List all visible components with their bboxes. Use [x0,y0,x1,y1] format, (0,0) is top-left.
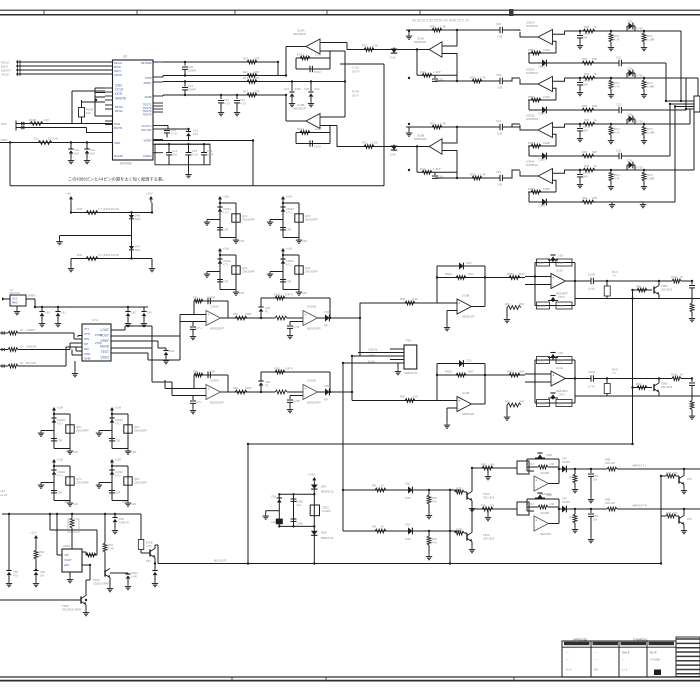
resistor RM2 to ground [428,531,430,536]
svg-text:C61: C61 [496,170,502,174]
svg-text:CDTI: CDTI [115,92,123,96]
resistor RM4 on collector [482,507,493,511]
svg-text:RSTN: RSTN [114,126,122,130]
svg-text:+12V: +12V [30,531,37,535]
transistor Q6B0 2SC1815 [653,286,655,293]
feedback box top row [535,359,575,361]
svg-text:5./B: 5./B [497,132,502,136]
svg-text:C3R: C3R [223,280,228,284]
mute transistor Q L [678,476,680,483]
svg-text:2200P: 2200P [188,68,196,72]
svg-text:Q6C: Q6C [134,425,140,429]
feedback box U91 [261,297,330,299]
svg-text:LRCK: LRCK [114,73,122,77]
wire AOUT row 4 [163,94,286,96]
svg-text:2200P: 2200P [188,87,196,91]
svg-text:1W: 1W [40,573,44,577]
svg-text:RF8: RF8 [584,164,590,168]
svg-text:+24V: +24V [308,473,315,477]
svg-text:24.5: 24.5 [12,297,18,301]
FET Q8 2SK209 box [124,477,132,485]
svg-text:C230P: C230P [207,296,215,300]
transistor emitter to lower row [658,392,660,396]
filter cell Q3 top rail [219,254,221,257]
svg-text:—: — [566,651,569,655]
vertical row4 to connector [693,112,695,170]
transistor QM 2SC1815 [466,492,468,499]
svg-text:U302A: U302A [210,379,219,383]
svg-text:4.750: 4.750 [636,74,643,78]
svg-text:4 / 4: 4 / 4 [566,668,572,672]
svg-text:2SC1815-GR48: 2SC1815-GR48 [62,607,82,611]
svg-text:U7A: U7A [92,318,98,322]
svg-text:Q1C: Q1C [242,214,248,218]
svg-text:+15A: +15A [57,406,64,410]
svg-text:22R: 22R [254,76,259,80]
svg-text:R6B: R6B [605,458,610,462]
svg-text:R50: R50 [470,76,476,80]
vertical row1 to bundle [680,31,682,101]
revision stripe block [676,637,700,677]
svg-text:D30: D30 [169,349,175,353]
USB connector P6S [404,345,417,369]
power arrow Q2 +15A [282,199,284,203]
svg-text:-: - [304,394,305,398]
wire down to note box [9,143,11,186]
svg-text:R50: R50 [70,521,75,525]
svg-text:P2: P2 [265,383,269,387]
svg-text:3W: 3W [490,463,494,467]
svg-text:10WF: 10WF [543,95,551,99]
svg-text:R6E: R6E [481,504,486,508]
feedback resistor R61 [528,52,556,54]
svg-text:R6B1: R6B1 [507,370,514,374]
svg-text:NE5532FF: NE5532FF [307,401,321,405]
series cap C60 lower [499,78,501,84]
lower return row [575,395,700,397]
svg-text:NE5532P: NE5532P [414,137,426,141]
svg-text:+: + [552,276,554,280]
cap Q6b on left rail [109,438,115,440]
svg-text:4.7K: 4.7K [456,527,462,531]
input resistor 3.3K [405,301,415,305]
polarized cap Q4a on left rail [280,258,285,260]
feedback resistor R6A7 [527,466,538,468]
filter cell Q8 ground [127,501,129,504]
svg-text:C6X: C6X [558,254,563,258]
op-amp output vertical [548,483,559,485]
vertical row4b to bundle [674,107,676,203]
svg-text:R91: R91 [233,312,238,316]
row 4 lower wire [529,201,619,203]
filter cell Q8 gnd branch [99,482,112,484]
FET Q5 2SK209 box [66,425,74,433]
feedback resistor box R6W2 [537,302,550,309]
svg-text:C2N: C2N [131,502,136,506]
DAC IC U6 AK4396 [113,60,154,160]
drive row wire (y=490) [343,489,460,491]
svg-text:R6.0: R6.0 [647,34,653,38]
svg-text:—: — [566,658,569,662]
resistor R50 lower [472,79,482,83]
svg-text:4.7U: 4.7U [115,421,121,425]
cap C15 [186,152,192,154]
svg-text:C2N: C2N [627,159,632,163]
filter cell Q4 bottom rail [283,289,299,291]
svg-text:R60: R60 [400,395,406,399]
svg-text:NJM5532: NJM5532 [526,117,538,121]
FET Q1 2SK209 box [232,214,240,222]
wire AOUT row 1 [163,61,278,63]
feedback network U81 [194,300,228,302]
svg-text:R10R: R10R [29,118,36,122]
power arrow Q7 +15A [53,462,55,466]
polarized cap C94 series [626,165,628,170]
polarized cap Q1a on left rail [217,206,222,208]
Q52 emitter ground [85,605,87,610]
resistor box R10R pullup network [79,108,85,118]
svg-text:C103: C103 [314,70,321,74]
filter cell Q2 ground [298,238,300,241]
U50 ground pins [69,572,71,577]
bundle wire 1 [666,100,694,102]
series polarized cap C6T [562,505,566,512]
svg-text:R2P: R2P [592,57,597,61]
output row resistor [485,374,525,376]
output corner to mid row [471,306,485,308]
svg-text:R6.2: R6.2 [614,81,620,85]
transistor emitter to lower row [658,295,660,299]
svg-text:R41: R41 [420,167,426,171]
U1A right bottom wire [320,50,345,52]
series cap C6N [590,375,592,381]
resistor R932 mid [275,390,287,394]
svg-text:C304A: C304A [57,470,65,474]
svg-text:4L: 4L [594,72,597,76]
svg-text:+15A: +15A [223,247,230,251]
polarized cap Q6a on left rail [109,417,114,419]
feedback resistor R62 [528,99,556,101]
svg-text:DM: DM [84,347,89,351]
row 3 lower wire [529,155,619,157]
transistor collector to main row [658,281,660,285]
svg-text:MA/7KR: MA/7KR [10,291,20,295]
svg-text:-: - [552,380,553,384]
row 1 flat-top pin to main row [553,31,565,34]
filter cell Q1 ground [235,238,237,241]
cap Q5b on left rail [51,438,57,440]
polarized cap C6T2 on bottom branch [550,392,555,394]
border zone tick marks top [43,10,45,15]
feedback resistor R40 [416,50,418,76]
feedback bottom row [535,305,575,307]
corner into filter row 4 [502,170,520,178]
svg-text:AGND: AGND [143,154,153,158]
filter cell Q4 gnd branch [270,271,283,273]
resistor R43 [86,211,98,215]
svg-text:P5V: P5V [1,122,7,126]
svg-text:R6E1: R6E1 [445,370,452,374]
svg-text:C55: C55 [324,384,329,388]
svg-text:C1815-GR48: C1815-GR48 [93,581,109,585]
filter cell Q1 gnd branch [207,219,220,221]
svg-text:C2N: C2N [239,239,244,243]
ground LED row 2 right [151,259,153,267]
bundle wire 2 [670,103,694,105]
svg-text:R6.0: R6.0 [647,81,653,85]
svg-text:104: 104 [593,477,598,481]
row 2 lower wire [529,109,619,111]
feedback cap C103 of U1A [295,58,297,69]
svg-text:LED: LED [135,217,140,221]
svg-text:1.6P: 1.6P [558,359,564,363]
input wires U81 [180,314,206,316]
input wires [525,373,551,375]
svg-text:+: + [552,373,554,377]
svg-text:TEST4: TEST4 [143,112,152,116]
svg-text:4.7U: 4.7U [57,421,63,425]
LED D46 [131,213,133,216]
svg-text:1K: 1K [20,328,23,332]
op-amp U1A (points left) [306,39,320,54]
polarized cap C9C [277,519,282,521]
vertical from rail to transistor Q51 [104,514,106,543]
svg-text:4.750: 4.750 [636,166,643,170]
op-amp U12 R [534,516,548,531]
svg-text:+: + [207,313,209,317]
svg-text:R6.3: R6.3 [614,127,620,131]
svg-text:5./B: 5./B [497,183,502,187]
feedback cap C51 [434,172,436,175]
polarized cap C6X on feedback [550,254,555,256]
polarized cap C6T2 on bottom branch [550,295,555,297]
svg-text:R6P: R6P [666,471,671,475]
svg-text:C22: C22 [616,103,621,107]
split row upper U2B [406,126,500,128]
svg-text:1NF-S: 1NF-S [285,293,293,297]
transistor collector to main row [658,379,660,383]
svg-text:C3R: C3R [57,491,62,495]
muting rail BUYOUT [158,563,661,565]
QM collector wire to terminal [471,468,473,491]
polarized cap Q2a on left rail [280,206,285,208]
resistor R6W to ground [574,469,576,474]
svg-text:USBCM: USBCM [26,345,37,349]
svg-text:C50R: C50R [64,500,71,504]
svg-text:T6A0: T6A0 [483,492,490,496]
svg-text:OUT-: OUT- [352,93,359,97]
svg-text:4.7U(B): 4.7U(B) [650,658,660,662]
svg-text:R6P: R6P [666,511,671,515]
series cap C41 upper [499,124,501,130]
svg-text:5.6K: 5.6K [390,153,396,157]
cap bank box under U6 [155,144,210,165]
svg-text:NJM5532: NJM5532 [526,163,538,167]
mute resistor R6P [666,514,676,518]
svg-text:LED: LED [135,248,140,252]
svg-text:+15A: +15A [286,247,293,251]
cap Q8b on left rail [109,490,115,492]
svg-text:+15A: +15A [115,406,122,410]
svg-text:56P: 56P [583,35,588,39]
filter cell Q1 left rail [219,203,221,238]
polarized cap C92 series [626,73,628,78]
op-amp U10 NE5532 [457,299,471,314]
resistor R51 lower [472,176,482,180]
svg-text:AINB: AINB [144,95,151,99]
series cap main to lower row [681,378,692,380]
FET Q4 2SK209 box [295,266,303,274]
svg-text:4.7U: 4.7U [115,473,121,477]
svg-text:C6G: C6G [593,514,598,518]
transistor Q6B0 2SC1815 [653,384,655,391]
svg-text:-: - [458,308,459,312]
feedback cap C2D2 on lower wire [542,106,546,113]
long vertical to drive rows [342,363,344,531]
svg-text:XTO: XTO [84,332,91,336]
svg-text:D4BV: D4BV [28,294,35,298]
svg-text:R6.9: R6.9 [612,270,618,274]
svg-text:R6J0: R6J0 [671,275,678,279]
svg-text:—: — [622,658,625,662]
transistor Q50 [149,549,151,556]
filter cell Q5 right rail [69,414,71,449]
bundle wire to riser x352 [358,352,390,354]
vertical joining rows to muting rail [449,490,451,564]
resistor RM4 on collector [482,466,493,470]
svg-text:2SK209FF: 2SK209FF [76,428,89,432]
polarized cap C93 series [626,119,628,124]
feedback resistor box R6L7 [537,357,550,364]
svg-text:U11A: U11A [556,269,563,273]
svg-text:PB05/5-20: PB05/5-20 [321,490,334,494]
riser x352 down to H2 input [351,356,353,401]
row 3 main wire [565,123,681,125]
svg-text:RF8: RF8 [582,196,588,200]
svg-text:SMUTE: SMUTE [115,97,126,101]
svg-text:1.5K: 1.5K [372,141,378,145]
feedback resistor box 1.6P [556,259,572,266]
resistor R902 [235,390,247,394]
svg-text:R6B3: R6B3 [528,141,535,145]
resistor R92 to ground [642,80,646,89]
corner into filter row 3 [502,124,520,127]
U7 ground below [74,361,76,371]
svg-text:MUTEB: MUTEB [141,61,152,65]
U1B right bottom wire [320,125,337,127]
svg-text:4.750: 4.750 [636,120,643,124]
svg-text:D5W: D5W [321,531,327,535]
svg-text:T50S: T50S [93,578,100,582]
svg-text:AMPOUT R: AMPOUT R [632,504,647,508]
svg-text:R63: R63 [432,496,437,500]
svg-text:1M: 1M [569,515,573,519]
svg-text:3NF: 3NF [468,272,474,276]
svg-text:47U: 47U [13,573,18,577]
svg-text:R6A7: R6A7 [528,463,535,466]
row 2 flat-bottom pin to feedback row [553,88,557,100]
svg-text:C6W: C6W [546,493,552,497]
svg-text:CCLK: CCLK [115,88,124,92]
svg-text:VIN: VIN [64,553,69,557]
feedback resistor box 1.6P lower [556,400,572,407]
wire BICK to U6 [27,65,112,67]
mute transistor emitter ground [683,485,685,488]
svg-text:C230P: C230P [207,370,215,374]
svg-text:C3R: C3R [115,439,120,443]
svg-text:R6W2: R6W2 [538,402,546,406]
cap C521 to ground [290,321,303,323]
svg-text:2NF: 2NF [519,399,525,403]
row 3 flat-bottom pin to feedback row [553,134,557,146]
op-amp U92 second [303,385,317,400]
wire chain1 to H stage riser [352,317,360,319]
row 3 flat-top pin to main row [553,124,565,127]
svg-text:C43: C43 [147,311,152,315]
svg-text:R13: R13 [243,90,249,94]
feedback top row with polarized cap [437,265,485,267]
svg-text:L/SEFT: L/SEFT [26,328,36,332]
U2A flat-bottom pin to lower row [442,54,457,82]
svg-text:R6U: R6U [505,302,511,306]
svg-text:NE5532P: NE5532P [462,315,474,319]
power arrow +15V (LED row) [150,199,152,203]
feedback resistor box 1.6P lower [556,302,572,309]
svg-text:R6B4: R6B4 [528,187,535,191]
PB05 left column [278,494,280,526]
svg-text:U6V0B: U6V0B [540,511,549,515]
bundle wire 4 [686,108,694,110]
series cap C6N [590,278,592,284]
svg-text:DP: DP [84,342,88,346]
feedback polarized cap C6W [537,452,542,454]
svg-text:2.2BR: 2.2BR [647,176,655,180]
svg-text:R60: R60 [400,297,406,301]
svg-text:SUI-5: SUI-5 [622,651,630,655]
svg-text:2SC1815: 2SC1815 [661,287,673,291]
svg-text:AMPOUT L: AMPOUT L [632,464,647,468]
cap C9B2 [291,518,297,520]
svg-text:C3R: C3R [57,439,62,443]
svg-text:LRCK: LRCK [1,72,9,76]
svg-text:4.7U: 4.7U [286,262,292,266]
svg-text:22R: 22R [254,57,259,61]
svg-text:C41: C41 [496,119,502,123]
svg-text:22R: 22R [254,70,259,74]
svg-text:2SC: 2SC [687,477,692,481]
power arrow Q3 +15A [219,251,221,255]
filter cell Q6 ground [127,449,129,452]
op-amp U91 second [303,311,317,326]
svg-text:U301A: U301A [210,305,219,309]
polarized cap Q7a on left rail [51,469,56,471]
wire LRCK to U6 [27,73,112,75]
series polarized cap C6Z1 on feedback vertical [260,317,275,319]
input wires U82 [180,388,206,390]
filter cell Q5 top rail [53,413,55,416]
loop wire back to U7 region [151,366,153,382]
op-amp U12 L [534,476,548,491]
svg-text:4.770: 4.770 [588,385,595,389]
svg-text:GND: GND [84,357,92,361]
filter cell Q4 left rail [282,255,284,290]
filter cell Q7 left rail [53,466,55,501]
svg-text:AMPL: AMPL [143,81,152,85]
svg-text:TEST: TEST [101,350,109,354]
svg-text:VREF: VREF [143,139,151,143]
output row resistor [485,277,525,279]
resistor R21 input [364,145,374,149]
